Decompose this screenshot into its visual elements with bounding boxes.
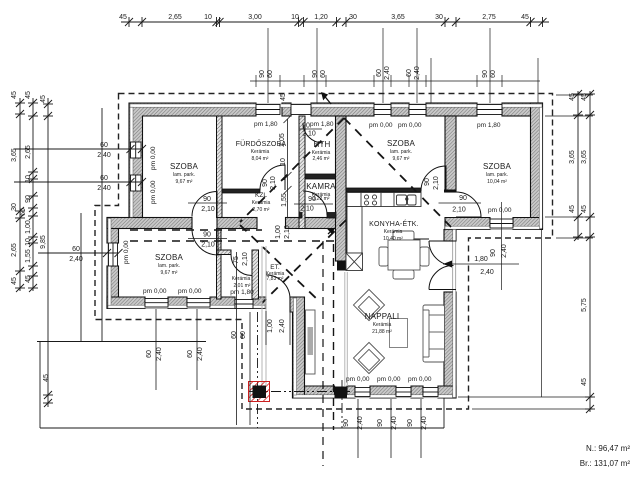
svg-text:2,70 m²: 2,70 m² xyxy=(253,207,270,213)
wall lower-szoba left xyxy=(107,218,119,309)
svg-text:45: 45 xyxy=(581,378,588,386)
fuerdo inner dimension xyxy=(284,115,292,218)
svg-text:9,67 m²: 9,67 m² xyxy=(161,270,178,276)
svg-text:2,10: 2,10 xyxy=(270,176,277,190)
svg-text:45: 45 xyxy=(25,275,32,283)
room label HTH xyxy=(312,140,331,162)
svg-text:Kerámia: Kerámia xyxy=(251,149,270,155)
svg-text:10: 10 xyxy=(25,238,32,246)
gray beam lines terrace left xyxy=(262,246,347,386)
left dimension chain 2 xyxy=(28,98,38,292)
svg-text:2,40: 2,40 xyxy=(414,66,421,80)
svg-text:2,46 m²: 2,46 m² xyxy=(313,156,330,162)
svg-text:45: 45 xyxy=(521,14,529,21)
svg-text:2,40: 2,40 xyxy=(480,269,494,276)
svg-text:60: 60 xyxy=(100,175,108,182)
door fuerdo/kzl xyxy=(260,165,285,190)
door szoba right xyxy=(456,192,481,217)
svg-text:90: 90 xyxy=(25,195,32,203)
svg-text:90: 90 xyxy=(308,196,316,203)
svg-text:pm 0,00: pm 0,00 xyxy=(346,376,370,383)
svg-text:2,65: 2,65 xyxy=(25,145,32,159)
entrance door ET xyxy=(266,275,290,299)
sofa xyxy=(423,305,445,362)
svg-text:3,65: 3,65 xyxy=(581,150,588,164)
room label nappali xyxy=(365,312,400,335)
svg-text:2,40: 2,40 xyxy=(384,66,391,80)
svg-text:Br.: 131,07 m²: Br.: 131,07 m² xyxy=(580,459,631,468)
wall nappali bottom xyxy=(293,386,457,398)
svg-text:1,55: 1,55 xyxy=(25,249,32,263)
svg-text:60: 60 xyxy=(231,331,238,339)
svg-text:pm 0,00: pm 0,00 xyxy=(178,288,202,295)
room label szoba4 lower-left xyxy=(155,253,184,276)
svg-text:2,10: 2,10 xyxy=(452,207,466,214)
windows top wall with glazing lines xyxy=(256,105,502,115)
svg-text:5,75: 5,75 xyxy=(581,298,588,312)
svg-text:45: 45 xyxy=(581,205,588,213)
room label szoba2 xyxy=(387,139,416,162)
svg-text:10,04 m²: 10,04 m² xyxy=(487,179,507,185)
svg-text:21,88 m²: 21,88 m² xyxy=(372,329,392,335)
svg-text:2,10: 2,10 xyxy=(201,206,215,213)
door dimension labels xyxy=(188,129,481,239)
door kamra xyxy=(303,191,327,215)
svg-text:45: 45 xyxy=(119,14,127,21)
svg-text:60: 60 xyxy=(146,350,153,358)
svg-text:Kerámia: Kerámia xyxy=(373,322,392,328)
wc walls xyxy=(217,229,259,300)
wall end cap szoba3 door xyxy=(444,190,456,193)
window szoba-right bottom wall xyxy=(490,219,513,228)
svg-text:45: 45 xyxy=(280,93,287,101)
svg-text:60: 60 xyxy=(320,70,327,78)
svg-text:90: 90 xyxy=(377,419,384,427)
svg-text:1,00: 1,00 xyxy=(275,225,282,239)
svg-text:75: 75 xyxy=(233,256,240,264)
door arcs xyxy=(192,123,481,299)
svg-text:2,10: 2,10 xyxy=(433,176,440,190)
armchair 1 (diamond) xyxy=(353,289,384,320)
svg-text:60: 60 xyxy=(72,246,80,253)
svg-text:Kerámia: Kerámia xyxy=(232,276,251,282)
wall kitchen left / divider 30 xyxy=(336,116,347,261)
svg-text:SZOBA: SZOBA xyxy=(170,162,199,171)
svg-text:10: 10 xyxy=(204,14,212,21)
tv cabinet xyxy=(306,310,316,374)
windows lower szoba bottom wall xyxy=(145,299,253,309)
svg-text:pm 0,00: pm 0,00 xyxy=(488,207,512,214)
svg-text:pm 0,00: pm 0,00 xyxy=(408,376,432,383)
svg-text:SZOBA: SZOBA xyxy=(387,139,416,148)
svg-text:1,55: 1,55 xyxy=(281,193,288,207)
partition kamra bottom xyxy=(327,213,336,219)
svg-text:90: 90 xyxy=(262,179,269,187)
svg-text:SZOBA: SZOBA xyxy=(155,253,184,262)
right extension lines xyxy=(458,95,593,409)
svg-text:90: 90 xyxy=(459,195,467,202)
svg-text:60: 60 xyxy=(100,142,108,149)
svg-text:90: 90 xyxy=(203,196,211,203)
svg-text:pm 1,80: pm 1,80 xyxy=(254,121,278,128)
wall divider middle/right szoba xyxy=(445,116,456,192)
room label szoba1 xyxy=(170,162,199,185)
svg-text:45: 45 xyxy=(11,277,18,285)
window left wall lower szoba xyxy=(109,243,118,266)
wall lower-szoba bottom xyxy=(107,297,266,309)
svg-text:2,40: 2,40 xyxy=(97,185,111,192)
svg-text:90: 90 xyxy=(424,178,431,186)
svg-text:lam. park.: lam. park. xyxy=(486,172,508,178)
svg-text:30: 30 xyxy=(349,14,357,21)
svg-text:KZL: KZL xyxy=(255,192,267,199)
svg-text:lam. park.: lam. park. xyxy=(173,172,195,178)
svg-text:45: 45 xyxy=(43,374,50,382)
kitchen counter xyxy=(347,193,421,254)
svg-text:pm 0,00: pm 0,00 xyxy=(398,122,422,129)
room label wc xyxy=(230,276,254,296)
top dimension chain xyxy=(121,17,549,27)
door wc xyxy=(231,255,252,276)
svg-text:pm 0,00: pm 0,00 xyxy=(143,288,167,295)
svg-text:KAMRA: KAMRA xyxy=(306,182,336,191)
svg-text:9,67 m²: 9,67 m² xyxy=(393,156,410,162)
svg-text:pm 0,00: pm 0,00 xyxy=(377,376,401,383)
right dimension chain 2 xyxy=(585,90,595,413)
svg-text:N.: 96,47 m²: N.: 96,47 m² xyxy=(586,444,630,453)
svg-text:60: 60 xyxy=(187,350,194,358)
svg-text:pm 0,00: pm 0,00 xyxy=(150,180,157,204)
svg-text:pm 0,00: pm 0,00 xyxy=(369,122,393,129)
svg-text:1,80: 1,80 xyxy=(474,256,488,263)
horizontal dashed line over passage xyxy=(130,229,262,231)
wall top exterior xyxy=(129,103,543,218)
svg-text:90: 90 xyxy=(302,123,310,130)
svg-text:pm 1,80: pm 1,80 xyxy=(230,289,254,296)
svg-text:3,65: 3,65 xyxy=(11,148,18,162)
svg-text:45: 45 xyxy=(25,91,32,99)
insulation strips exterior walls xyxy=(108,104,542,398)
windows left wall upper szoba xyxy=(131,142,142,191)
svg-text:2,40: 2,40 xyxy=(97,152,111,159)
svg-text:10,40 m²: 10,40 m² xyxy=(383,236,403,242)
left dimension chain 3 xyxy=(43,98,53,407)
wall nappali right xyxy=(444,230,456,399)
sink xyxy=(397,195,417,205)
boundary lines xyxy=(37,108,444,428)
svg-text:90: 90 xyxy=(203,232,211,239)
svg-text:3,00: 3,00 xyxy=(248,14,262,21)
svg-text:2,40: 2,40 xyxy=(197,347,204,361)
windows nappali bottom wall xyxy=(355,388,438,397)
svg-text:Kerámia: Kerámia xyxy=(384,229,403,235)
svg-text:7,83 m²: 7,83 m² xyxy=(267,276,284,282)
svg-text:2,10: 2,10 xyxy=(242,252,249,266)
svg-text:1,20: 1,20 xyxy=(314,14,328,21)
svg-text:45: 45 xyxy=(569,205,576,213)
partition szoba1/fuerdo xyxy=(217,116,223,218)
svg-text:pm 1,80: pm 1,80 xyxy=(477,122,501,129)
svg-text:2,10: 2,10 xyxy=(284,225,291,239)
arrow on dashed projection line xyxy=(328,229,334,235)
door lower szoba (swings down) xyxy=(192,229,218,255)
shaft with X xyxy=(346,253,363,271)
bottom dimension lines xyxy=(156,252,421,458)
stove burners xyxy=(364,195,376,205)
room label szoba3 xyxy=(483,162,512,185)
svg-text:90: 90 xyxy=(482,70,489,78)
svg-text:8,04 m²: 8,04 m² xyxy=(252,156,269,162)
svg-text:2,10: 2,10 xyxy=(300,206,314,213)
svg-text:90: 90 xyxy=(343,419,350,427)
svg-text:3,65: 3,65 xyxy=(569,150,576,164)
svg-text:2,10: 2,10 xyxy=(302,131,316,138)
eaves dashed outline xyxy=(95,94,553,410)
svg-text:45: 45 xyxy=(581,93,588,101)
svg-text:lam. park.: lam. park. xyxy=(390,149,412,155)
svg-text:45: 45 xyxy=(569,93,576,101)
svg-text:2,65: 2,65 xyxy=(11,243,18,257)
svg-text:pm 0,00: pm 0,00 xyxy=(123,240,130,264)
right dimension chain 1 xyxy=(573,90,583,241)
svg-text:60: 60 xyxy=(240,331,247,339)
svg-text:90: 90 xyxy=(259,70,266,78)
terrace column 1 with red marking xyxy=(249,382,270,402)
svg-text:2,75: 2,75 xyxy=(482,14,496,21)
svg-text:60: 60 xyxy=(20,208,27,216)
door szoba2 (middle) xyxy=(421,166,446,191)
roof diagonal dashed lines xyxy=(240,118,451,303)
svg-text:9,67 m²: 9,67 m² xyxy=(176,179,193,185)
door szoba1 (swings up) xyxy=(192,192,217,217)
svg-text:ET.: ET. xyxy=(270,264,280,271)
svg-text:30: 30 xyxy=(435,14,443,21)
sill dimension line y81 xyxy=(250,28,540,103)
room label kamra xyxy=(306,182,336,202)
partition fuerdo bottom xyxy=(222,189,260,193)
svg-text:90: 90 xyxy=(312,70,319,78)
dining table with chairs xyxy=(379,231,429,279)
svg-text:9,85: 9,85 xyxy=(40,235,47,249)
svg-text:90: 90 xyxy=(407,419,414,427)
flue black square kitchen xyxy=(337,261,346,271)
partition kitchen/szoba2 xyxy=(346,188,421,192)
left dimension chain 1 xyxy=(15,98,25,292)
partition HTH/KAMRA xyxy=(305,174,336,179)
svg-text:HTH: HTH xyxy=(313,140,330,149)
left window dim lines xyxy=(14,145,146,257)
svg-text:2,05: 2,05 xyxy=(279,133,286,147)
svg-text:lam. park.: lam. park. xyxy=(158,263,180,269)
svg-text:45: 45 xyxy=(40,95,47,103)
small arrow marker top xyxy=(322,93,331,104)
svg-text:10: 10 xyxy=(291,14,299,21)
svg-text:2,40: 2,40 xyxy=(156,347,163,361)
svg-text:1,00: 1,00 xyxy=(25,220,32,234)
room label kzl xyxy=(252,192,271,213)
terrace column 2 black xyxy=(335,387,348,399)
vertical dashed section line xyxy=(322,241,324,466)
wall fuerdo right vertical xyxy=(299,116,305,229)
svg-text:KONYHA-ÉTK.: KONYHA-ÉTK. xyxy=(369,219,419,228)
wall mid horizontal (szoba1 bottom) xyxy=(107,218,336,229)
svg-text:60: 60 xyxy=(267,70,274,78)
svg-text:45: 45 xyxy=(11,91,18,99)
coffee table xyxy=(390,319,408,348)
svg-text:SZOBA: SZOBA xyxy=(483,162,512,171)
svg-text:2,10: 2,10 xyxy=(201,242,215,249)
terrace door dim labels xyxy=(443,263,519,265)
svg-text:1,00: 1,00 xyxy=(267,319,274,333)
room label konyha xyxy=(369,219,419,242)
armchair 2 (diamond) xyxy=(353,342,384,373)
svg-text:NAPPALI: NAPPALI xyxy=(365,312,400,321)
svg-text:60: 60 xyxy=(406,69,413,77)
svg-text:pm 0,00: pm 0,00 xyxy=(150,146,157,170)
svg-text:pm 1,80: pm 1,80 xyxy=(310,121,334,128)
terrace double door nappali xyxy=(429,240,456,242)
svg-text:3,65: 3,65 xyxy=(391,14,405,21)
svg-text:Kerámia: Kerámia xyxy=(252,200,271,206)
room label ET xyxy=(266,264,285,282)
svg-text:2,65: 2,65 xyxy=(168,14,182,21)
room label fuerdoszoba xyxy=(236,139,287,162)
svg-text:2,40: 2,40 xyxy=(501,244,508,258)
svg-text:10: 10 xyxy=(280,158,287,166)
door HTH xyxy=(303,123,323,143)
svg-text:90: 90 xyxy=(490,249,497,257)
wall right exterior xyxy=(531,103,543,229)
svg-text:2,40: 2,40 xyxy=(279,319,286,333)
column axis dash-dot lines xyxy=(248,312,352,428)
wall nappali left xyxy=(290,297,305,398)
svg-text:60: 60 xyxy=(376,69,383,77)
svg-text:30: 30 xyxy=(11,203,18,211)
svg-text:60: 60 xyxy=(490,70,497,78)
wall szoba-right bottom xyxy=(445,218,543,230)
